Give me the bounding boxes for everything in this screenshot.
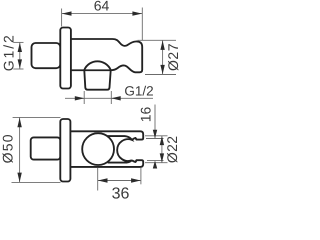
64 dim extension lines (61, 9, 63, 27)
36 arrows (98, 178, 108, 182)
svg-text:64: 64 (94, 0, 110, 14)
16 dim line (154, 105, 156, 139)
body + clip outer band, top jaw (70, 131, 143, 139)
svg-text:Ø50: Ø50 (0, 133, 16, 163)
O50 dim line (19, 117, 21, 182)
svg-text:16: 16 (137, 107, 153, 123)
O22 dim line (161, 136, 163, 163)
flange (plan) (60, 119, 70, 182)
O22 arrows (160, 136, 164, 145)
36 ext lines (97, 168, 99, 191)
O27 ext lines (138, 39, 177, 41)
clip outer band, bottom jaw (70, 160, 143, 167)
64 arrows (62, 11, 72, 15)
64 dim line (62, 13, 143, 15)
outlet circle (82, 133, 114, 165)
bottom G1/2 arrows (outside) (75, 96, 85, 100)
bottom G1/2 dim+leader line (65, 97, 111, 99)
svg-text:36: 36 (112, 186, 130, 200)
svg-text:Ø27: Ø27 (165, 43, 181, 71)
O50 ext lines (13, 116, 61, 118)
O22 ext lines (145, 135, 168, 137)
jaw tip cusp, top (132, 138, 137, 140)
O50 arrows (17, 118, 21, 128)
G1/2 left dim line (19, 42, 21, 69)
svg-text:Ø22: Ø22 (164, 136, 180, 163)
holder body outline (side view) (71, 39, 142, 72)
pipe G1/2 male (side view) (32, 43, 61, 68)
16 arrows (153, 130, 157, 139)
O27 arrows (160, 41, 164, 50)
G1/2 left dim ext lines (13, 41, 23, 43)
svg-text:G1/2: G1/2 (124, 84, 153, 99)
svg-text:G1/2: G1/2 (1, 33, 17, 71)
bottom G1/2 ext lines (83, 91, 85, 104)
inner contour: line + C arc + line (108, 136, 132, 163)
pipe (plan) (31, 137, 61, 159)
16 ext lines (146, 138, 164, 140)
technical drawing: shower holder, two views (0, 0, 184, 200)
jaw tip cusp, bottom (132, 160, 137, 162)
outlet cone body (84, 70, 110, 89)
wall flange (side view) (60, 28, 71, 89)
36 dim line (98, 180, 141, 182)
G1/2 left arrows (18, 43, 22, 52)
O27 dim line (162, 40, 164, 74)
outlet cone dome (84, 61, 111, 70)
